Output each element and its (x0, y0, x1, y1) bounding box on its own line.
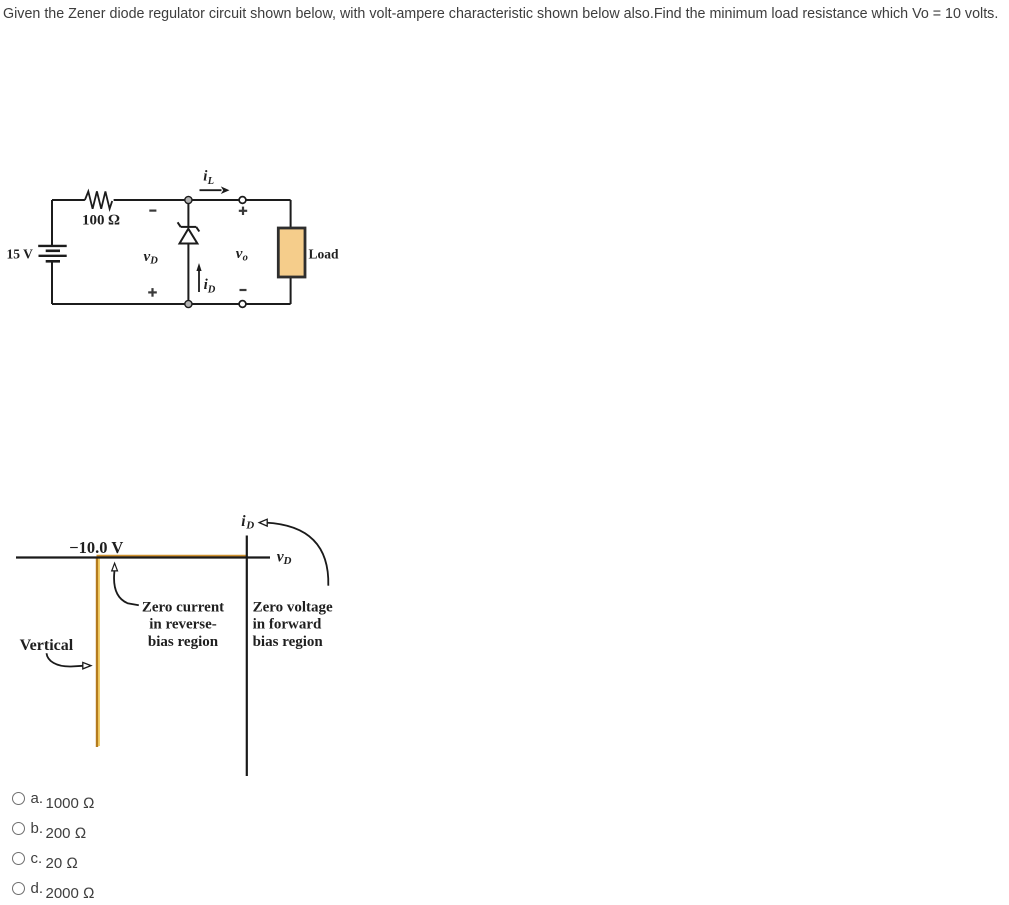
svg-text:D: D (245, 520, 254, 532)
svg-text:Vertical: Vertical (20, 637, 74, 654)
svg-text:D: D (283, 555, 292, 567)
svg-text:bias region: bias region (148, 634, 219, 650)
svg-text:15 V: 15 V (7, 247, 34, 262)
svg-text:o: o (243, 252, 248, 263)
svg-text:D: D (207, 285, 216, 296)
svg-text:D: D (149, 256, 158, 267)
svg-text:Load: Load (309, 247, 340, 262)
svg-text:Zero voltage: Zero voltage (253, 600, 333, 616)
svg-text:bias region: bias region (253, 634, 324, 650)
svg-text:Zero current: Zero current (142, 600, 224, 616)
svg-text:−10.0 V: −10.0 V (69, 538, 123, 557)
svg-text:L: L (207, 176, 214, 187)
svg-text:in forward: in forward (253, 616, 322, 632)
svg-text:in reverse-: in reverse- (149, 616, 217, 632)
svg-text:100 Ω: 100 Ω (82, 213, 120, 229)
